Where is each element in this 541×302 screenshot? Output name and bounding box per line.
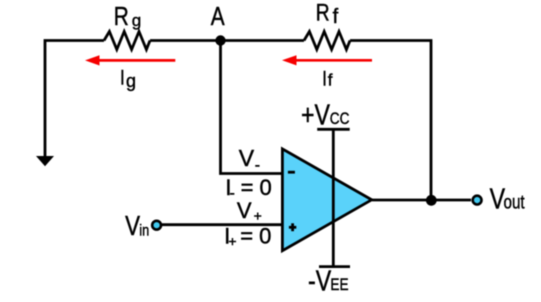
svg-text:+: + <box>228 233 236 249</box>
svg-text:= 0: = 0 <box>240 224 271 249</box>
svg-text:+V: +V <box>301 98 330 131</box>
svg-text:V: V <box>239 145 255 171</box>
svg-text:V: V <box>237 198 252 223</box>
svg-text:in: in <box>139 222 149 240</box>
svg-text:-: - <box>230 185 235 202</box>
svg-text:g: g <box>132 11 141 30</box>
svg-text:-V: -V <box>308 264 332 297</box>
svg-text:V: V <box>125 211 140 242</box>
svg-text:EE: EE <box>330 276 348 295</box>
svg-text:out: out <box>504 191 525 213</box>
svg-text:f: f <box>333 6 339 28</box>
svg-text:+: + <box>254 208 262 224</box>
svg-text:f: f <box>328 71 333 90</box>
svg-text:= 0: = 0 <box>241 175 272 200</box>
svg-text:R: R <box>316 0 330 26</box>
svg-text:A: A <box>211 2 225 31</box>
svg-text:R: R <box>114 2 129 31</box>
svg-text:I: I <box>322 68 327 91</box>
svg-text:g: g <box>126 71 136 91</box>
svg-text:CC: CC <box>330 110 350 129</box>
svg-text:I: I <box>120 67 125 90</box>
svg-text:-: - <box>255 157 260 174</box>
